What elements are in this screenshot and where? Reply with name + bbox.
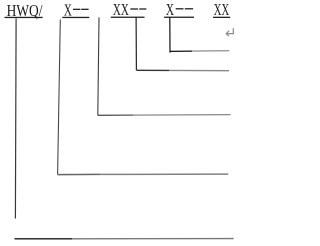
bottom rule line: [15, 238, 73, 240]
dash 1 of group 4: [176, 8, 184, 9]
leader line 1 horizontal (top): [170, 50, 192, 52]
underline of group 5: [213, 17, 230, 18]
leader line 5 vertical (from group 4): [169, 17, 171, 53]
underline of group 2: [62, 17, 89, 18]
leader line 4 horizontal: [57, 173, 100, 175]
leader line 3 horizontal: [98, 114, 133, 116]
leader line 2 horizontal gray tail: [169, 69, 229, 71]
leader line 3 vertical: [98, 17, 99, 115]
leader line 4 vertical (from group 3): [135, 17, 137, 70]
svg-text:X: X: [166, 0, 174, 19]
leader line 4 horizontal gray tail: [100, 173, 228, 175]
svg-text:X: X: [64, 1, 72, 20]
dash 1 of group 3: [130, 8, 138, 9]
underline of group 4: [164, 17, 194, 18]
leader line 1 horizontal gray tail: [192, 50, 229, 52]
leader line 3 horizontal gray tail: [133, 114, 231, 117]
dash 2 of group 2: [81, 9, 88, 10]
svg-text:XX: XX: [113, 0, 129, 19]
dash 1 of group 2: [73, 9, 80, 10]
paragraph return mark: [226, 28, 233, 36]
leader line 1 vertical (from HWQ/): [14, 18, 17, 218]
svg-text:XX: XX: [214, 0, 229, 19]
bottom rule gray part: [72, 238, 234, 240]
dash 2 of group 3: [139, 8, 146, 9]
dash 2 of group 4: [185, 8, 193, 9]
underline of HWQ/: [5, 17, 43, 18]
leader line 2 horizontal: [136, 69, 169, 71]
leader line 2 vertical (from group 2): [58, 20, 61, 175]
underline of group 3: [111, 17, 145, 18]
